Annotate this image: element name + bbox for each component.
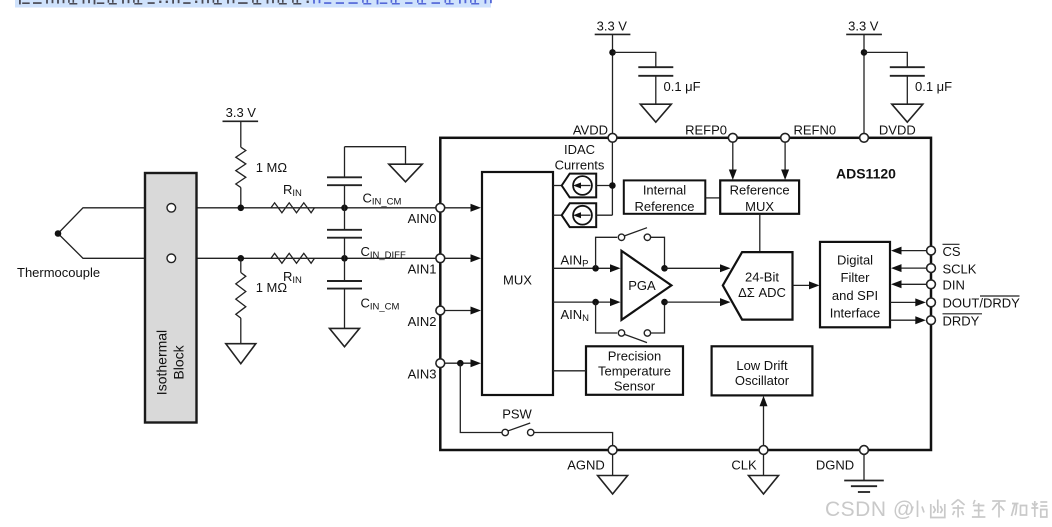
wire to upper cap ground <box>345 147 406 165</box>
label DIN <box>943 278 965 293</box>
svg-text:0.1 μF: 0.1 μF <box>664 79 701 94</box>
svg-text:IDAC: IDAC <box>564 142 595 157</box>
svg-text:CLK: CLK <box>731 458 757 473</box>
pin CS <box>927 246 936 255</box>
wire thermocouple lower lead <box>58 234 440 259</box>
label Thermocouple <box>17 265 100 280</box>
wire AVDD internal feed to IDACs <box>611 138 613 215</box>
IDAC current source 2 <box>553 203 612 227</box>
pin AIN3 <box>436 359 445 368</box>
supply 3.3V (AVDD) <box>595 19 631 138</box>
Internal Reference block <box>624 180 706 214</box>
ground (DGND chassis) <box>844 481 884 493</box>
glyph 5 <box>992 501 1006 518</box>
PGA bypass switch (top) <box>596 228 665 269</box>
svg-text:Thermocouple: Thermocouple <box>17 265 100 280</box>
svg-text:AIN2: AIN2 <box>408 314 437 329</box>
svg-text:CSDN @: CSDN @ <box>825 498 915 521</box>
wire AIN2 into MUX <box>445 307 482 315</box>
isothermal block <box>145 173 197 423</box>
svg-text:Temperature: Temperature <box>598 363 671 378</box>
node junction cap column upper <box>341 205 348 212</box>
svg-text:1 MΩ: 1 MΩ <box>256 160 288 175</box>
svg-text:3.3 V: 3.3 V <box>597 19 628 34</box>
node open circle on block (upper) <box>167 204 176 213</box>
svg-text:AIN3: AIN3 <box>408 367 437 382</box>
capacitor CIN_DIFF <box>327 208 406 261</box>
label SCLK <box>943 261 977 276</box>
svg-text:REFN0: REFN0 <box>794 122 837 137</box>
svg-text:AINP: AINP <box>561 252 589 269</box>
capacitor CIN_CM (upper) <box>327 147 402 208</box>
MUX block <box>482 172 553 395</box>
node junction AIN1 bias <box>238 255 245 262</box>
svg-text:REFP0: REFP0 <box>685 122 727 137</box>
svg-text:ADS1120: ADS1120 <box>836 166 896 182</box>
switch PSW <box>460 363 612 449</box>
svg-text:DRDY: DRDY <box>943 314 980 329</box>
pin SCLK <box>927 264 936 273</box>
pin AIN0 <box>436 203 445 212</box>
wire DIN into digital filter <box>891 280 931 288</box>
label AINP <box>561 252 589 269</box>
pin AIN1 <box>436 254 445 263</box>
label ADS1120 <box>836 166 896 182</box>
svg-text:and SPI: and SPI <box>832 288 878 303</box>
24-Bit ADC block <box>723 252 793 320</box>
PGA bypass switch (bottom) <box>596 302 665 343</box>
svg-text:DGND: DGND <box>816 458 854 473</box>
label REFN0 <box>794 122 837 137</box>
svg-text:Reference: Reference <box>730 182 790 197</box>
Reference MUX block <box>720 180 799 214</box>
node junction PGA out bottom <box>661 299 668 306</box>
node thermocouple junction <box>55 230 62 237</box>
svg-text:Filter: Filter <box>841 270 871 285</box>
Digital Filter and SPI Interface block <box>820 242 890 327</box>
svg-text:SCLK: SCLK <box>943 261 977 276</box>
label DOUT/DRDY with overline <box>943 296 1021 311</box>
pin AVDD <box>608 133 617 142</box>
SECTION: left input network <box>17 105 440 423</box>
wire MUX to AINN <box>553 298 621 306</box>
label AIN1 <box>408 262 437 277</box>
svg-text:CIN_CM: CIN_CM <box>363 191 402 208</box>
glyph 3 <box>952 500 965 518</box>
wire PGA bottom out to ADC <box>665 298 731 306</box>
svg-text:CS: CS <box>943 244 961 259</box>
svg-text:0.1 μF: 0.1 μF <box>915 79 952 94</box>
node junction PGA out top <box>661 265 668 272</box>
svg-text:CIN_DIFF: CIN_DIFF <box>361 244 406 261</box>
svg-text:Interface: Interface <box>830 306 881 321</box>
pin DGND <box>860 446 869 455</box>
node junction AINP <box>592 265 599 272</box>
node junction IDAC feed <box>609 182 616 189</box>
svg-text:AINN: AINN <box>561 307 590 324</box>
wire CS into digital filter <box>891 247 931 255</box>
node junction on AIN3 <box>457 360 464 367</box>
svg-text:3.3 V: 3.3 V <box>226 105 257 120</box>
label AVDD <box>573 122 608 137</box>
pin AIN2 <box>436 306 445 315</box>
resistor RIN (lower) <box>271 253 315 286</box>
resistor R 1 MOhm (upper bias) <box>236 147 288 208</box>
node junction AINN <box>592 299 599 306</box>
label IDAC Currents <box>555 142 605 173</box>
label DGND <box>816 458 854 473</box>
ground (lower cap) <box>330 328 360 346</box>
wire REFN0 down to reference mux <box>781 138 789 180</box>
glyph 1 <box>911 501 924 518</box>
label AGND <box>567 458 605 473</box>
SECTION: chip internals <box>408 19 1021 495</box>
wire AIN3 into MUX <box>445 359 482 367</box>
ground (DVDD cap) <box>892 104 923 122</box>
wire reference mux to ADC <box>759 214 761 252</box>
svg-text:RIN: RIN <box>283 269 302 286</box>
svg-text:PGA: PGA <box>628 278 656 293</box>
wire AIN1 into MUX <box>445 254 482 262</box>
svg-text:Currents: Currents <box>555 158 605 173</box>
wire PGA top out to ADC <box>665 264 731 272</box>
svg-text:PSW: PSW <box>502 407 532 422</box>
wire CLK up to oscillator <box>760 396 768 449</box>
capacitor 0.1uF (AVDD) <box>613 52 701 104</box>
wire CLK to ground <box>763 454 765 475</box>
svg-text:Isothermal: Isothermal <box>154 330 170 395</box>
label AIN0 <box>408 211 437 226</box>
wire ADC to digital filter <box>793 281 820 289</box>
svg-text:Sensor: Sensor <box>614 378 656 393</box>
label DRDY with overline <box>943 314 983 329</box>
label CLK <box>731 458 757 473</box>
svg-text:Low Drift: Low Drift <box>736 358 788 373</box>
svg-text:Precision: Precision <box>608 348 661 363</box>
Low Drift Oscillator block <box>712 346 813 395</box>
label DVDD <box>879 122 916 137</box>
capacitor 0.1uF (DVDD) <box>864 52 952 104</box>
ADS1120 outer box <box>440 138 931 450</box>
ground (CLK) <box>749 476 779 495</box>
wire DRDY out <box>890 316 926 324</box>
wire REFP0 down to reference mux <box>729 138 737 180</box>
pin AGND <box>608 446 617 455</box>
svg-text:AIN1: AIN1 <box>408 262 437 277</box>
node open circle on block (lower) <box>167 254 176 263</box>
glyph 2 <box>931 500 945 518</box>
glyph 7 <box>1031 501 1047 517</box>
label REFP0 <box>685 122 727 137</box>
op-amp PGA <box>622 251 672 320</box>
node junction AIN0 bias <box>238 205 245 212</box>
label CS with overline <box>943 244 961 259</box>
pin DIN <box>927 280 936 289</box>
pin DRDY <box>927 316 936 325</box>
svg-text:MUX: MUX <box>503 273 532 288</box>
ground (AGND) <box>598 476 628 495</box>
capacitor CIN_CM (lower) <box>327 258 400 328</box>
ground (below lower 1 MOhm) <box>226 344 256 364</box>
watermark CSDN <box>825 498 1047 521</box>
svg-text:AVDD: AVDD <box>573 122 608 137</box>
wire AGND to ground <box>612 454 614 475</box>
svg-text:DOUT/DRDY: DOUT/DRDY <box>943 296 1021 311</box>
svg-text:CIN_CM: CIN_CM <box>361 296 400 313</box>
pin CLK <box>759 446 768 455</box>
svg-text:Block: Block <box>171 344 187 379</box>
svg-text:DIN: DIN <box>943 278 965 293</box>
pin REFP0 <box>728 133 737 142</box>
svg-text:Internal: Internal <box>643 182 686 197</box>
node junction cap column lower <box>341 255 348 262</box>
pin DVDD <box>860 133 869 142</box>
wire MUX to temperature sensor <box>553 370 586 372</box>
resistor R 1 MOhm (lower bias) <box>236 258 288 343</box>
svg-text:Digital: Digital <box>837 252 873 267</box>
svg-text:Reference: Reference <box>635 199 695 214</box>
ground (AVDD cap) <box>640 104 671 122</box>
svg-text:Oscillator: Oscillator <box>735 373 790 388</box>
glyph 4 <box>972 500 986 517</box>
ground (upper cap) <box>389 164 422 182</box>
wire DOUT/DRDY out <box>890 298 926 306</box>
svg-text:DVDD: DVDD <box>879 122 916 137</box>
svg-text:AGND: AGND <box>567 458 605 473</box>
wire MUX to AINP <box>553 264 621 272</box>
wire thermocouple upper lead <box>58 208 440 234</box>
clipped highlighted text line at top <box>15 0 492 8</box>
Precision Temperature Sensor block <box>586 346 683 395</box>
wire SCLK into digital filter <box>891 264 931 272</box>
label AIN2 <box>408 314 437 329</box>
svg-text:ΔΣ ADC: ΔΣ ADC <box>738 285 786 300</box>
svg-text:MUX: MUX <box>745 199 774 214</box>
svg-text:24-Bit: 24-Bit <box>745 270 779 285</box>
IDAC current source 1 <box>553 174 612 198</box>
pin DOUT/DRDY <box>927 298 936 307</box>
svg-text:RIN: RIN <box>283 182 302 199</box>
label AIN3 <box>408 367 437 382</box>
resistor RIN (upper) <box>271 182 315 213</box>
wire DGND to ground <box>863 454 865 480</box>
svg-text:AIN0: AIN0 <box>408 211 437 226</box>
glyph 6 <box>1012 504 1027 517</box>
pin REFN0 <box>781 133 790 142</box>
wire internal ref to reference mux <box>705 197 720 199</box>
svg-text:3.3 V: 3.3 V <box>848 19 879 34</box>
wire AIN0 into MUX <box>445 204 482 212</box>
supply 3.3V (left bias) <box>223 105 259 147</box>
supply 3.3V (DVDD) <box>846 19 882 138</box>
label AINN <box>561 307 590 324</box>
